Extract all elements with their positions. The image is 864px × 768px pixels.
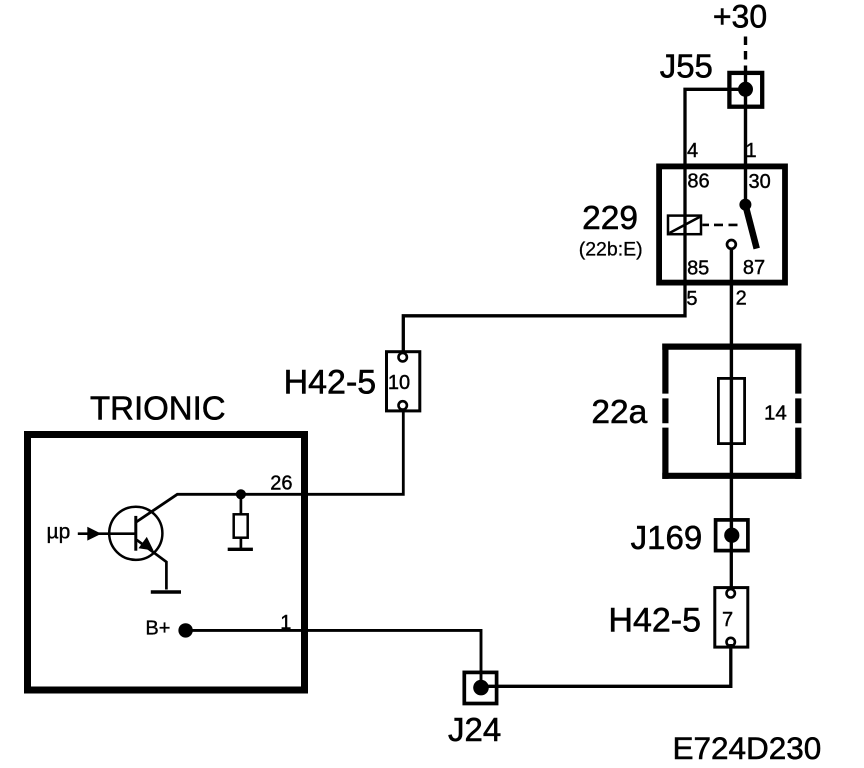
svg-text:30: 30: [748, 171, 770, 193]
ground (emitter): [151, 590, 181, 593]
svg-text:J24: J24: [448, 711, 501, 748]
connector pin circles H42-5 pin 7: [727, 589, 735, 597]
fuse holder 22a box: [662, 344, 801, 350]
svg-text:14: 14: [764, 402, 787, 425]
junction dot J55: [738, 82, 753, 97]
svg-text:1: 1: [745, 140, 756, 162]
wire: dashed +30 supply feed: [744, 37, 747, 75]
input arrow: [87, 527, 101, 541]
svg-text:5: 5: [686, 288, 697, 310]
relay 229 box: [659, 166, 785, 282]
svg-text:26: 26: [270, 473, 292, 495]
svg-text:J169: J169: [631, 519, 703, 556]
svg-text:+30: +30: [713, 0, 767, 35]
fuse element: [718, 378, 744, 443]
svg-text:4: 4: [687, 140, 698, 162]
svg-text:B+: B+: [145, 618, 170, 640]
wire: J55 to relay pin 4 (86 side) down to pin 5 and across to H42-5 pin 10: [403, 89, 745, 356]
svg-text:1: 1: [280, 612, 291, 634]
svg-text:7: 7: [722, 609, 733, 631]
ECU TRIONIC box: [28, 435, 305, 691]
junction dot on pin 26 wire: [236, 489, 246, 499]
wire: µp input to transistor base: [78, 532, 135, 535]
transistor Q1: [109, 507, 162, 560]
relay actuation dashed link: [702, 224, 709, 227]
relay contact 87 circle: [727, 240, 736, 249]
svg-text:22a: 22a: [591, 394, 647, 431]
svg-text:E724D230: E724D230: [672, 730, 821, 766]
connector pin circles H42-5 pin 10: [399, 353, 407, 361]
node B+ dot: [178, 623, 192, 637]
svg-text:TRIONIC: TRIONIC: [90, 390, 226, 427]
svg-text:(22b:E): (22b:E): [579, 239, 643, 261]
svg-text:87: 87: [743, 257, 765, 279]
svg-text:2: 2: [736, 288, 747, 310]
wire: J169 to H42-5 pin 7: [730, 535, 733, 593]
connector J169 box: [716, 520, 748, 551]
svg-text:229: 229: [582, 200, 638, 237]
svg-text:10: 10: [388, 372, 410, 394]
connector H42-5 pin 7 box: [715, 588, 748, 648]
wire: relay contact (pin 2) down through fuse 22a to J169: [730, 250, 733, 535]
svg-text:H42-5: H42-5: [608, 602, 701, 640]
wire: H42-5 pin 10 down and across to TRIONIC pin 26, into transistor collector: [136, 405, 403, 522]
connector H42-5 pin 10 box: [387, 352, 420, 411]
svg-text:H42-5: H42-5: [284, 364, 377, 402]
relay switch arm: [745, 205, 756, 249]
resistor: [240, 494, 243, 514]
junction dot J24: [473, 680, 489, 696]
connector J55 box: [729, 73, 762, 107]
svg-text:J55: J55: [660, 48, 713, 85]
relay coil: [668, 216, 701, 235]
wire: TRIONIC B+ (pin 1) to J24: [186, 630, 481, 687]
svg-text:µp: µp: [47, 521, 71, 544]
svg-text:85: 85: [687, 257, 709, 279]
wire: H42-5 pin 7 down and across to J24: [481, 644, 731, 686]
transistor emitter with arrow: [137, 540, 167, 590]
wire: J55 to relay pin 1 (30): [744, 74, 747, 201]
resistor return bar: [228, 548, 253, 551]
junction dot J169: [724, 528, 739, 543]
svg-text:86: 86: [687, 171, 709, 193]
connector J24 box: [464, 672, 496, 703]
